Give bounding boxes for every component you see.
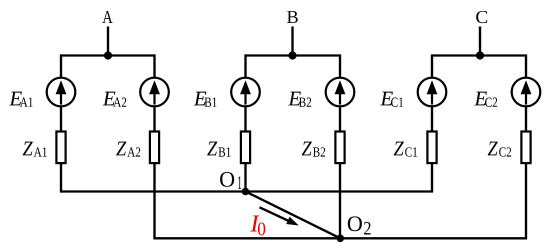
node O1 dot	[242, 188, 250, 196]
label EC1 subscript	[391, 98, 403, 107]
label EA2 subscript	[113, 98, 126, 107]
wire B2 mid	[339, 106, 341, 133]
node A label	[102, 11, 112, 23]
wire A stub	[107, 27, 109, 56]
source EA2	[140, 78, 169, 107]
wire A1 upper	[60, 54, 62, 78]
wire B2 lower	[339, 162, 341, 238]
label I0 subscript (red)	[258, 223, 265, 236]
impedance ZA2	[150, 132, 159, 164]
wire B stub	[291, 27, 293, 56]
wire C stub	[479, 27, 481, 56]
label ZB2 subscript	[313, 147, 325, 156]
source EC1	[418, 78, 447, 107]
wire A1 mid	[60, 106, 62, 133]
current arrow I0	[260, 207, 299, 225]
source EC2	[512, 78, 541, 107]
impedance ZC2	[521, 132, 530, 164]
label ZB1 subscript	[219, 147, 231, 156]
wire B top bus	[246, 54, 341, 56]
source EB2	[326, 78, 355, 107]
wire A1 lower	[60, 162, 62, 192]
wire B2 upper	[339, 54, 341, 78]
impedance ZA1	[56, 132, 65, 164]
label ZC1 subscript	[405, 147, 417, 156]
label EC1 main	[380, 92, 393, 106]
node B junction dot	[288, 51, 296, 59]
label EB2 main	[288, 92, 301, 106]
label O2 main	[348, 216, 362, 231]
impedance ZC1	[427, 132, 436, 164]
label ZC2 main	[488, 142, 498, 156]
label ZB1 main	[207, 142, 217, 156]
label EB1 subscript	[205, 98, 217, 107]
wire C1 mid	[431, 106, 433, 133]
label ZA2 main	[116, 142, 126, 156]
node O2 dot	[337, 235, 345, 243]
wire A2 mid	[153, 106, 155, 133]
node A junction dot	[104, 51, 112, 59]
wire O1-O2 diagonal link	[246, 192, 341, 239]
wire A top bus	[61, 54, 155, 56]
node C junction dot	[476, 51, 484, 59]
impedance ZB1	[241, 132, 250, 164]
label EB2 subscript	[299, 98, 311, 107]
label ZA2 subscript	[127, 147, 140, 156]
wire C2 mid	[525, 106, 527, 133]
label O1 main	[220, 172, 234, 187]
label ZC1 main	[394, 142, 404, 156]
label EA2 main	[103, 92, 116, 106]
wire C2 upper	[525, 54, 527, 78]
label EC2 subscript	[485, 98, 497, 107]
node B label	[287, 11, 298, 23]
label EC2 main	[474, 92, 487, 106]
label EB1 main	[194, 92, 207, 106]
wire upper neutral bus (O1)	[60, 190, 433, 192]
wire B1 upper	[244, 54, 246, 78]
label ZA1 main	[23, 142, 33, 156]
wire A2 lower	[153, 162, 155, 238]
label ZB2 main	[302, 142, 312, 156]
wire lower neutral bus (O2)	[153, 237, 527, 239]
source EB1	[231, 78, 260, 107]
label ZA1 subscript	[34, 147, 47, 156]
source EA1	[47, 78, 76, 107]
wire C2 lower	[525, 162, 527, 238]
wire A2 upper	[153, 54, 155, 78]
wire B1 lower	[244, 162, 246, 192]
node C label	[476, 11, 487, 23]
wire B1 mid	[244, 106, 246, 133]
label O1 subscript	[238, 176, 241, 189]
label I0 main (red)	[250, 215, 259, 231]
wire C1 upper	[431, 54, 433, 78]
wire C1 lower	[431, 162, 433, 192]
label O2 subscript	[364, 222, 370, 235]
label EA1 subscript	[20, 98, 33, 107]
label ZC2 subscript	[499, 147, 511, 156]
wire C top bus	[432, 54, 526, 56]
label EA1 main	[9, 92, 22, 106]
impedance ZB2	[335, 132, 344, 164]
